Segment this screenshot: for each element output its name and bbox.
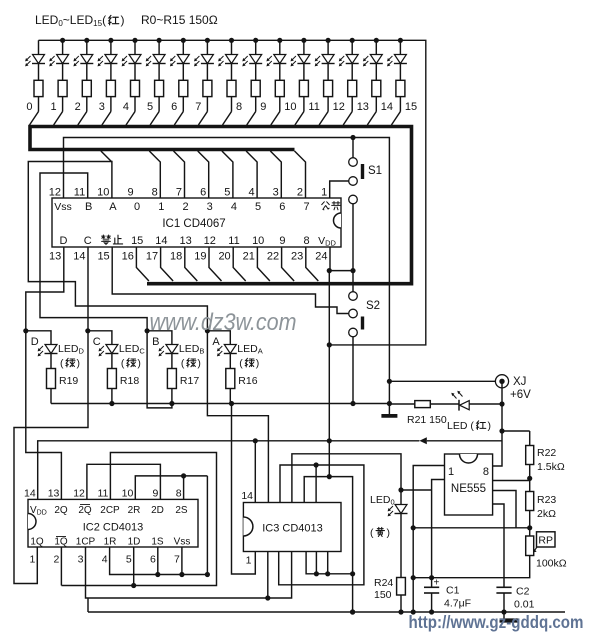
- svg-text:R21 150: R21 150: [407, 414, 447, 426]
- svg-text:0: 0: [26, 101, 32, 113]
- svg-text:5: 5: [147, 101, 153, 113]
- svg-text:(: (: [370, 527, 374, 539]
- svg-text:8: 8: [483, 466, 489, 478]
- svg-text:R17: R17: [180, 375, 199, 387]
- svg-text:18: 18: [170, 251, 182, 263]
- svg-text:C: C: [93, 336, 101, 348]
- svg-text:4.7μF: 4.7μF: [444, 598, 471, 610]
- svg-text:XJ: XJ: [513, 376, 526, 388]
- svg-text:IC3 CD4013: IC3 CD4013: [262, 523, 323, 535]
- LED7 (red) with resistor R7 and channel wire 7: [206, 40, 208, 54]
- svg-text:6: 6: [171, 101, 177, 113]
- svg-text:19: 19: [194, 251, 206, 263]
- svg-text:22: 22: [267, 251, 279, 263]
- svg-text:4: 4: [231, 201, 237, 213]
- svg-text:R22: R22: [537, 447, 556, 459]
- svg-text:14: 14: [24, 488, 36, 500]
- svg-text:1: 1: [158, 201, 164, 213]
- connector XJ +6V: [389, 380, 495, 382]
- wire: column from return line to IC3 pin1: [232, 404, 256, 575]
- LED0 (yellow) with resistor R24 150: [398, 487, 403, 492]
- svg-text:2kΩ: 2kΩ: [537, 508, 556, 520]
- svg-text:14: 14: [155, 235, 167, 247]
- svg-text:6: 6: [150, 554, 156, 566]
- svg-text:8: 8: [176, 488, 182, 500]
- switch S1: [352, 138, 354, 158]
- svg-text:21: 21: [243, 251, 255, 263]
- svg-text:4: 4: [123, 101, 129, 113]
- ground symbol (below C2): [503, 612, 505, 619]
- svg-text:13: 13: [48, 488, 60, 500]
- svg-text:1R: 1R: [104, 537, 117, 548]
- svg-text:R23: R23: [537, 494, 556, 506]
- svg-text:1: 1: [50, 101, 56, 113]
- svg-text:R18: R18: [120, 375, 139, 387]
- svg-text:8: 8: [304, 235, 310, 247]
- svg-text:): ): [387, 527, 391, 539]
- svg-text:2S: 2S: [175, 505, 188, 516]
- svg-text:C: C: [84, 235, 92, 247]
- svg-text:D: D: [60, 235, 68, 247]
- wire: IC1 pin1 common to S1 middle contact: [330, 181, 349, 198]
- LED3 (red) with resistor R3 and channel wire 3: [110, 40, 112, 54]
- svg-text:4: 4: [102, 554, 108, 566]
- node: junction Vss line / +6V feed / LED-return: [387, 379, 392, 384]
- svg-text:B: B: [152, 336, 159, 348]
- resistor R23 2k: [529, 478, 531, 491]
- svg-text:(: (: [239, 358, 243, 370]
- svg-text:2CP: 2CP: [100, 505, 120, 516]
- svg-text:NE555: NE555: [451, 483, 486, 495]
- svg-text:R24: R24: [374, 577, 393, 589]
- svg-text:R16: R16: [238, 375, 257, 387]
- svg-text:2: 2: [182, 201, 188, 213]
- svg-text:24: 24: [315, 251, 327, 263]
- wire: VDD rail (IC2 pin14 / IC3 pin14): [38, 441, 420, 500]
- LED13 (red) with resistor R13 and channel wire 13: [351, 40, 353, 54]
- svg-text:D: D: [31, 336, 39, 348]
- LED6 (red) with resistor R6 and channel wire 6: [182, 40, 184, 54]
- LED5 (red) with resistor R5 and channel wire 5: [158, 40, 160, 54]
- svg-text:): ): [121, 13, 125, 27]
- svg-text:7: 7: [303, 201, 309, 213]
- svg-text:5: 5: [224, 187, 230, 199]
- svg-text:13: 13: [357, 101, 369, 113]
- svg-text:A: A: [212, 336, 220, 348]
- svg-text:0: 0: [134, 201, 140, 213]
- svg-text:13: 13: [179, 235, 191, 247]
- LED14 (red) with resistor R14 and channel wire 14: [375, 40, 377, 54]
- svg-text:10: 10: [284, 101, 296, 113]
- wire: IC3 pin14 to VDD rail: [254, 441, 256, 503]
- wire: L1 net A - IC1 pin10 to LED-A column: [28, 162, 207, 331]
- wire: IC3 wrap line lower: [304, 477, 352, 612]
- svg-text:8: 8: [152, 187, 158, 199]
- svg-text:10: 10: [252, 235, 264, 247]
- svg-text:14: 14: [73, 251, 85, 263]
- svg-text:2R: 2R: [128, 505, 141, 516]
- svg-text:1: 1: [246, 555, 252, 567]
- svg-text:1Q: 1Q: [54, 537, 68, 548]
- svg-text:1.5kΩ: 1.5kΩ: [537, 461, 565, 473]
- capacitor C2 0.01: [496, 586, 511, 588]
- svg-text:Vss: Vss: [54, 201, 72, 213]
- svg-text:5: 5: [255, 201, 261, 213]
- svg-text:R19: R19: [59, 375, 78, 387]
- svg-text:20: 20: [218, 251, 230, 263]
- svg-text:+: +: [434, 578, 440, 589]
- svg-text:11: 11: [308, 101, 319, 113]
- svg-text:11: 11: [97, 488, 108, 500]
- svg-text:3: 3: [78, 554, 84, 566]
- wire: net B lower jog to return line: [147, 331, 172, 408]
- wire: IC1 pin12 Vss up to common thin line then to ground column: [64, 138, 390, 415]
- wire: bottom ground bus: [88, 611, 565, 613]
- wire: IC3 wrap line upper (to yellow LED node): [292, 454, 401, 503]
- svg-text:7: 7: [176, 187, 182, 199]
- LED4 (red) with resistor R4 and channel wire 4: [134, 40, 136, 54]
- svg-text:9: 9: [279, 235, 285, 247]
- LED1 (red) with resistor R1 and channel wire 1: [62, 40, 64, 54]
- svg-text:8: 8: [236, 101, 242, 113]
- svg-text:B: B: [85, 201, 92, 213]
- LEDD (green) with resistor R19: [23, 328, 28, 333]
- wire: IC2 pins 4,6,7 ground tie line: [110, 547, 208, 575]
- wire: NE555 trigger/threshold column to C1: [432, 480, 445, 588]
- svg-text:): ): [197, 358, 201, 370]
- svg-text:S2: S2: [366, 300, 380, 312]
- op IC2 CD4013 package body: [28, 499, 198, 547]
- wires: IC1 bottom channel pins 16-23 diagonals into bus: [136, 247, 149, 281]
- wire: IC1 pin24 VDD down to supply column: [329, 247, 331, 271]
- svg-text:12: 12: [49, 187, 61, 199]
- svg-text:7: 7: [174, 554, 180, 566]
- svg-text:2: 2: [75, 101, 81, 113]
- svg-text:(: (: [121, 358, 125, 370]
- LED (red) power indicator: [458, 400, 460, 411]
- svg-text:13: 13: [49, 251, 61, 263]
- LEDC (green) with resistor R18: [85, 328, 90, 333]
- wire: NE555 control to divider line: [493, 491, 516, 528]
- op IC3 CD4013 package body: [243, 503, 341, 552]
- svg-text:15: 15: [97, 251, 109, 263]
- potentiometer RP 100k: [529, 528, 531, 536]
- wire: IC1 pin15 inhibit to S2 middle contact: [112, 247, 348, 314]
- svg-text:2: 2: [54, 554, 60, 566]
- resistor R22 1.5k: [529, 431, 531, 446]
- op-amp/timer NE555 package body: [445, 454, 493, 515]
- svg-text:15: 15: [405, 101, 417, 113]
- wire: IC2 pin12 2Q- to pin9 2D tie: [87, 464, 160, 499]
- svg-text:7: 7: [195, 101, 201, 113]
- LED15 (red) with resistor R15 and channel wire 15: [399, 40, 401, 54]
- svg-text:10: 10: [97, 187, 109, 199]
- svg-text:IC2 CD4013: IC2 CD4013: [83, 522, 144, 534]
- svg-text:C1: C1: [446, 585, 460, 597]
- svg-text:9: 9: [127, 187, 133, 199]
- svg-text:9: 9: [153, 488, 159, 500]
- LED11 (red) with resistor R11 and channel wire 11: [303, 40, 305, 54]
- svg-text:3: 3: [207, 201, 213, 213]
- wire: IC2 pin11 2CP route to pin2/pin5 line: [61, 453, 216, 586]
- svg-text:3: 3: [273, 187, 279, 199]
- svg-text:17: 17: [146, 251, 158, 263]
- svg-text:): ): [137, 358, 141, 370]
- wire: IC3 bottom pins tie line: [306, 552, 353, 574]
- svg-text:12: 12: [333, 101, 345, 113]
- wire: IC2 pin10 2D tie to pin8 and reset rail: [135, 476, 207, 500]
- wire: divider tap line: [413, 527, 530, 529]
- svg-text:2Q: 2Q: [54, 505, 68, 516]
- LEDA (green) with resistor R16: [205, 328, 210, 333]
- svg-text:1D: 1D: [128, 537, 141, 548]
- svg-text:12: 12: [73, 488, 85, 500]
- wire: IC2 pin2 and pin5 to 1Q-/1D line: [60, 547, 62, 586]
- LED9 (red) with resistor R9 and channel wire 9: [255, 40, 257, 54]
- wire: IC2 pin3 1CP clock line from IC3: [86, 547, 292, 598]
- wire: thick bus harness (LED returns / IC1 channel buses): [30, 127, 412, 284]
- net arrow marker: [419, 437, 426, 444]
- svg-text:150: 150: [374, 589, 392, 601]
- svg-text:16: 16: [122, 251, 134, 263]
- LED8 (red) with resistor R8 and channel wire 8: [231, 40, 233, 54]
- svg-text:): ): [77, 358, 81, 370]
- svg-text:C2: C2: [516, 586, 530, 598]
- wire: IC3 wrap line mid: [279, 465, 364, 585]
- wire: yellow LED node to NE555 trigger column: [401, 489, 432, 491]
- wire: NE555 discharge to R23/RP junction: [493, 480, 530, 482]
- wire: NE555 ground column (pin1): [413, 466, 444, 613]
- switch S2: [352, 271, 354, 292]
- svg-text:5: 5: [126, 554, 132, 566]
- svg-text:11: 11: [228, 235, 239, 247]
- svg-text:15: 15: [131, 235, 143, 247]
- wire: green LED cathode return line: [51, 403, 389, 405]
- LED0 (red) with resistor R0 and channel wire 0: [38, 40, 40, 54]
- wires: IC1 top channel pins 9-2 diagonals into bus: [149, 151, 160, 198]
- svg-text:R0~R15 150Ω: R0~R15 150Ω: [141, 13, 218, 27]
- svg-text:(: (: [60, 358, 64, 370]
- wire: NE555 output to C2 column: [493, 504, 504, 587]
- svg-text:3: 3: [99, 101, 105, 113]
- svg-text:6: 6: [200, 187, 206, 199]
- svg-text:1: 1: [29, 554, 35, 566]
- LED12 (red) with resistor R12 and channel wire 12: [327, 40, 329, 54]
- svg-text:10: 10: [122, 488, 134, 500]
- svg-text:11: 11: [74, 187, 85, 199]
- svg-text:1Q: 1Q: [30, 537, 44, 548]
- svg-text:0.01: 0.01: [514, 599, 535, 611]
- svg-text:1: 1: [448, 466, 454, 478]
- svg-text:+6V: +6V: [510, 389, 531, 401]
- svg-text:RP: RP: [538, 535, 553, 547]
- svg-text:IC1 CD4067: IC1 CD4067: [162, 218, 225, 230]
- svg-text:23: 23: [291, 251, 303, 263]
- svg-text:100kΩ: 100kΩ: [536, 558, 567, 570]
- LEDB (green) with resistor R17: [145, 328, 150, 333]
- wire: net D - IC1 pin13 to IC2 pin13: [26, 247, 64, 499]
- svg-text:9: 9: [260, 101, 266, 113]
- svg-text:1: 1: [321, 187, 327, 199]
- svg-text:(: (: [181, 358, 185, 370]
- LED10 (red) with resistor R10 and channel wire 10: [279, 40, 281, 54]
- op IC1 CD4067 package body: [52, 198, 341, 247]
- svg-text:2: 2: [297, 187, 303, 199]
- capacitor C1 4.7uF (electrolytic): [424, 586, 439, 588]
- svg-text:14: 14: [241, 490, 253, 502]
- svg-text:www.dz3w.com: www.dz3w.com: [150, 309, 297, 336]
- svg-text:14: 14: [381, 101, 393, 113]
- wire: +6V column XJ to R22 and NE555 pin8: [501, 381, 503, 431]
- resistor R21 150: [389, 403, 414, 405]
- svg-text:Vss: Vss: [174, 537, 191, 548]
- wire: net C - IC1 pin14 to LED-C column and IC2 pin1 route: [14, 247, 88, 584]
- wire: net A jog to IC3 top: [207, 331, 268, 503]
- svg-text:6: 6: [279, 201, 285, 213]
- svg-text:http://www.gz-gddq.com: http://www.gz-gddq.com: [409, 612, 584, 632]
- node: LED anode bus (top rail to +6V feed): [39, 40, 426, 345]
- svg-text:4: 4: [248, 187, 254, 199]
- svg-text:2Q: 2Q: [78, 505, 92, 516]
- svg-text:A: A: [109, 201, 117, 213]
- ground symbol (left of R21): [381, 414, 397, 418]
- svg-text:): ): [256, 358, 259, 370]
- svg-text:LED (: LED (: [447, 420, 474, 432]
- wire: L2 net B - IC1 pin11 to LED-B column: [40, 173, 147, 331]
- svg-text:2D: 2D: [151, 505, 164, 516]
- svg-text:S1: S1: [368, 165, 382, 177]
- svg-text:1CP: 1CP: [76, 537, 96, 548]
- svg-text:12: 12: [204, 235, 216, 247]
- svg-text:1S: 1S: [151, 537, 164, 548]
- LED2 (red) with resistor R2 and channel wire 2: [86, 40, 88, 54]
- svg-text:): ): [488, 420, 492, 432]
